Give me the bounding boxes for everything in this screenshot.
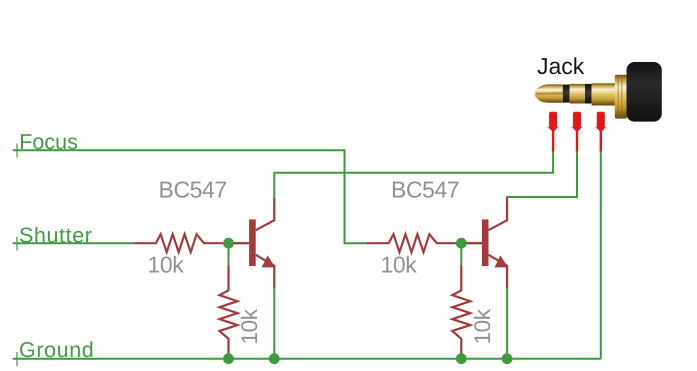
junction node (Q2 emitter/ground) bbox=[502, 353, 513, 364]
junction node (Q1 emitter/ground) bbox=[269, 353, 280, 364]
jack ring insulator bbox=[585, 84, 592, 104]
svg-text:Jack: Jack bbox=[537, 53, 585, 79]
svg-text:BC547: BC547 bbox=[391, 176, 459, 202]
pin-end cross Focus bbox=[13, 144, 22, 158]
wire ground to jack sleeve bbox=[600, 151, 602, 358]
jack plug photo (3.5mm TRS) bbox=[535, 62, 662, 122]
base lead Q1 bbox=[229, 242, 250, 244]
junction node (R4/ground) bbox=[456, 353, 467, 364]
transistor Q1 BC547 bbox=[229, 198, 276, 288]
jack ring contact bbox=[570, 84, 585, 104]
base bar Q2 bbox=[482, 219, 489, 266]
wire Ground net bbox=[13, 358, 601, 360]
jack tip bbox=[535, 84, 563, 102]
resistor R1 10k (horizontal, base of Q1) bbox=[135, 234, 250, 252]
jack knurled collar bbox=[615, 75, 627, 119]
svg-text:BC547: BC547 bbox=[159, 176, 227, 202]
wire Q1 collector to jack tip bbox=[274, 151, 553, 198]
wire stub node A to R2 bbox=[228, 243, 230, 265]
annotation arrow 3 (sleeve contact) bbox=[595, 112, 606, 152]
annotation arrow 1 (tip contact) bbox=[548, 112, 559, 152]
svg-text:10k: 10k bbox=[237, 308, 262, 344]
svg-text:10k: 10k bbox=[470, 308, 495, 344]
svg-text:10k: 10k bbox=[148, 252, 185, 278]
pin-end cross Shutter bbox=[13, 237, 22, 251]
pin-end cross Ground bbox=[13, 352, 22, 366]
junction node (R2/ground) bbox=[223, 353, 234, 364]
wire Focus net: horizontal, corner down, to R3 bbox=[13, 150, 367, 243]
base lead Q2 bbox=[461, 242, 482, 244]
emitter lead Q2 with arrow bbox=[489, 255, 508, 288]
wire stub node B to R4 bbox=[460, 243, 462, 265]
base bar Q1 bbox=[249, 219, 256, 266]
wire Q2 collector to jack ring bbox=[507, 151, 577, 198]
jack sleeve barrel bbox=[592, 83, 615, 105]
wire Q1 emitter to ground bbox=[273, 288, 275, 359]
collector lead Q1 bbox=[256, 198, 275, 230]
emitter lead Q1 with arrow bbox=[256, 255, 275, 288]
jack black body bbox=[627, 62, 662, 122]
emitter arrowhead Q1 bbox=[262, 255, 276, 267]
node B (base of Q2) bbox=[456, 238, 467, 249]
jack tip insulator ring bbox=[563, 85, 570, 103]
wire Shutter net bbox=[13, 242, 135, 244]
resistor R2 10k (vertical, to ground) bbox=[220, 265, 238, 358]
svg-text:10k: 10k bbox=[381, 252, 418, 278]
annotation arrow 2 (ring contact) bbox=[571, 112, 582, 152]
wire Q2 emitter to ground bbox=[506, 288, 508, 359]
node A (base of Q1) bbox=[223, 238, 234, 249]
transistor Q2 BC547 bbox=[461, 198, 508, 288]
collector lead Q2 bbox=[489, 198, 508, 230]
resistor R3 10k (horizontal, base of Q2) bbox=[367, 234, 482, 252]
resistor R4 10k (vertical, to ground) bbox=[452, 265, 470, 358]
emitter arrowhead Q2 bbox=[495, 255, 509, 267]
